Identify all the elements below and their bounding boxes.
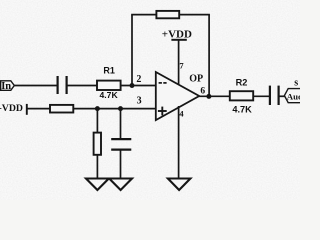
power +VDD [162,28,192,86]
svg-text:6: 6 [200,86,205,96]
svg-text:4.7K: 4.7K [232,105,252,115]
svg-text:7: 7 [179,60,184,70]
node junction (C3 branch) [118,106,123,111]
svg-text:-VDD: -VDD [0,103,23,114]
wire feedback right vertical [208,15,210,97]
capacitor C3 [111,139,131,150]
pin 4 wire to ground [178,106,180,179]
svg-text:R1: R1 [103,66,115,76]
node junction output [206,94,211,99]
svg-text:R2: R2 [236,77,248,87]
ground (left) [86,179,109,191]
svg-text:In: In [1,81,11,92]
wire R1 to op-amp pin 2 [121,85,156,87]
wire to C3 [120,109,122,139]
wire C1 to R1 [67,85,97,87]
wire op-amp output [199,95,230,97]
wire to R4 [96,109,98,133]
wire C2 to output port [279,95,285,97]
op-amp OP [156,72,203,120]
resistor R1 [97,66,121,101]
svg-text:Aud: Aud [287,91,300,101]
node junction (R4 branch) [95,106,100,111]
svg-text:2: 2 [136,74,141,85]
wire R4 to ground [96,155,98,179]
capacitor C2 [270,86,279,105]
ground (op-amp) [168,179,191,191]
node junction (feedback / pin2) [130,83,135,88]
svg-text:3: 3 [137,95,142,106]
resistor R2 [230,77,253,114]
wire feedback top right [179,14,210,16]
capacitor C1 [58,76,67,94]
resistor Rf (feedback) [156,11,179,18]
resistor R4 [94,133,101,155]
output port Aud [284,77,303,102]
svg-text:4: 4 [179,108,184,118]
svg-text:OP: OP [189,73,203,84]
resistor R3 [50,105,73,113]
wire In to C1 [14,85,57,87]
power -VDD [0,103,50,115]
wire feedback top left [131,14,156,16]
wire R3 to op-amp pin 3 [73,108,156,110]
wire C3 to ground [120,150,122,179]
svg-text:+VDD: +VDD [162,28,192,40]
svg-text:4.7K: 4.7K [100,90,119,100]
ground (middle-left) [109,179,132,191]
wire R2 to C2 [253,95,270,97]
input port In [1,81,15,92]
wire feedback left vertical [131,15,133,86]
svg-text:s: s [294,77,298,88]
